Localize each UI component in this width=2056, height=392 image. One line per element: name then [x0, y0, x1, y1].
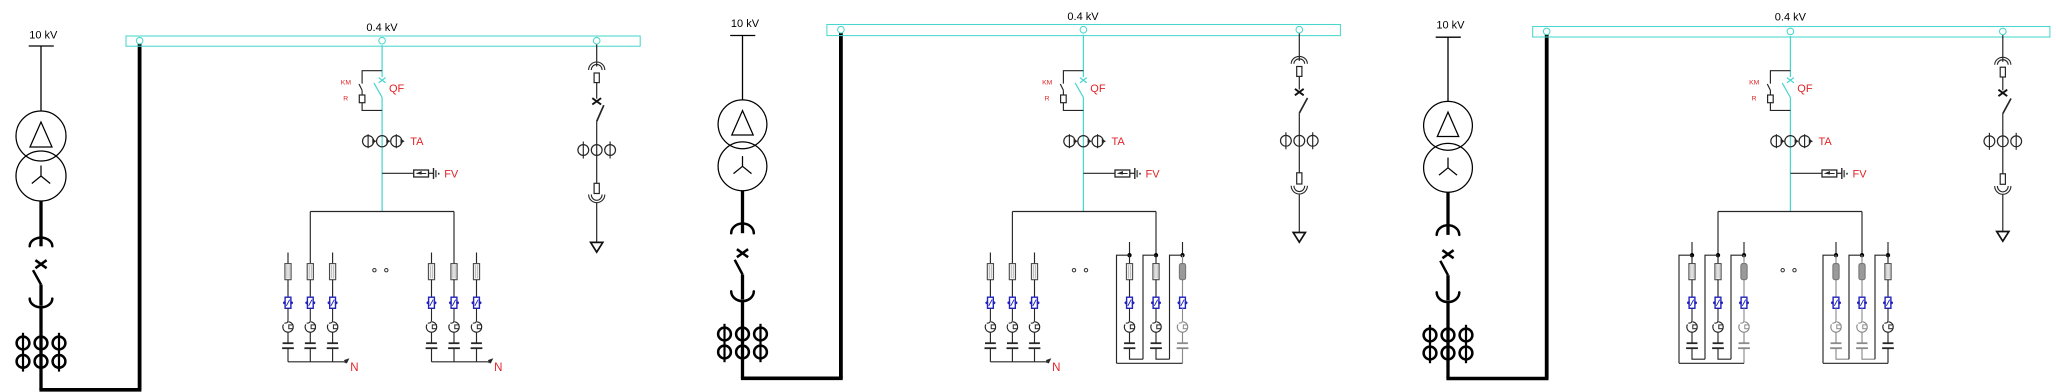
svg-text:10 kV: 10 kV	[29, 30, 58, 42]
svg-text:QF: QF	[389, 83, 405, 95]
svg-text:TA: TA	[410, 136, 424, 148]
svg-text:0.4 kV: 0.4 kV	[1775, 11, 1807, 23]
svg-text:10 kV: 10 kV	[1436, 19, 1465, 31]
svg-text:FV: FV	[1853, 169, 1868, 181]
svg-text:0.4 kV: 0.4 kV	[366, 22, 398, 34]
svg-text:10 kV: 10 kV	[731, 18, 760, 30]
svg-text:KM: KM	[341, 80, 352, 87]
svg-text:TA: TA	[1819, 136, 1833, 148]
svg-text:FV: FV	[444, 169, 459, 181]
svg-text:KM: KM	[1042, 80, 1053, 87]
svg-text:QF: QF	[1090, 83, 1106, 95]
svg-text:QF: QF	[1797, 83, 1813, 95]
svg-text:N: N	[494, 362, 502, 374]
svg-text:TA: TA	[1112, 136, 1126, 148]
svg-text:R: R	[343, 96, 348, 103]
svg-text:R: R	[1752, 96, 1757, 103]
svg-text:N: N	[350, 362, 358, 374]
svg-text:R: R	[1045, 96, 1050, 103]
svg-text:N: N	[1052, 362, 1060, 374]
svg-text:0.4 kV: 0.4 kV	[1067, 11, 1099, 23]
svg-text:FV: FV	[1146, 169, 1161, 181]
svg-text:KM: KM	[1749, 80, 1760, 87]
